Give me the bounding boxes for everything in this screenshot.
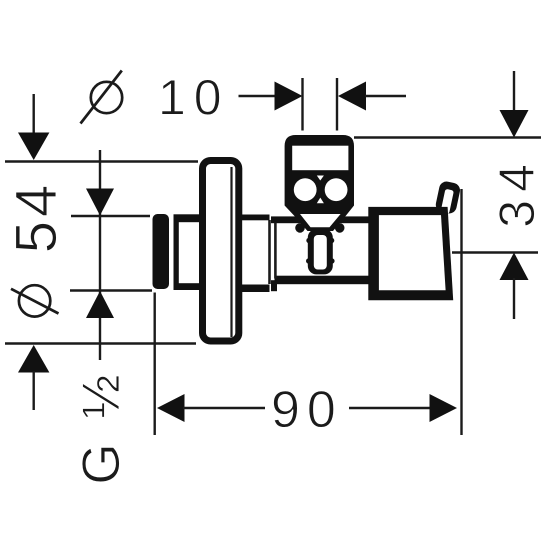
valve spindle upper left bump [306,238,311,243]
valve head top window cutout [292,146,348,171]
valve head right circle cutout [325,178,348,201]
valve spindle lower left bump [306,258,311,263]
dimension Ø10 extension line right [336,78,338,131]
dimension G1/2 dimension line [99,150,101,360]
dimension Ø54 bottom arrowhead [18,345,49,373]
valve head body (black) with shoulders [285,135,354,231]
dimension label "Ø 54" diameter symbol rotated [11,285,59,316]
valve shoulder left lobe [295,223,305,233]
dimension Ø54 bottom dimension line [33,371,35,410]
valve shoulder right lobe [335,223,345,233]
svg-text:G: G [72,443,131,484]
valve body step ring bottom edge [268,280,278,291]
svg-text:90: 90 [271,381,343,439]
dimension 34 top dimension line [513,71,515,112]
svg-text:34: 34 [489,156,545,228]
valve flange inner contour line [230,167,232,337]
dimension 34 top extension line [354,136,541,138]
valve body main tube bottom edge [275,276,373,285]
svg-text:½: ½ [72,374,131,418]
dimension Ø54 top arrowhead [18,133,49,161]
dimension 34 bottom extension line [452,251,538,253]
dimension Ø10 extension line left [301,78,303,131]
dimension 90 right arrowhead [430,394,458,422]
valve body step cylinder top edge [238,215,269,221]
valve spindle inner white [314,235,327,270]
dimension 90 right extension line [460,189,462,435]
outlet body inner white [379,215,446,290]
dimension 90 right dimension line [349,407,431,409]
svg-text:10: 10 [158,70,230,126]
valve head top notch [317,176,324,181]
valve inlet thread stub G1/2 [153,214,170,289]
outlet body outer [368,207,453,300]
valve escutcheon flange [203,161,239,342]
dimension 34 bottom dimension line [513,278,515,319]
dimension G1/2 lower arrowhead [86,291,114,318]
valve body main tube top edge [267,216,372,223]
dimension label "Ø 10" diameter symbol [81,71,123,124]
dimension Ø54 bottom extension line [5,342,196,344]
dimension 90 left extension line [153,293,155,436]
dimension 34 bottom arrowhead [500,253,529,281]
dimension Ø10 right dimension line [365,95,406,97]
valve body step cylinder right contour line [268,220,271,284]
valve inlet collar [174,214,201,290]
valve head shoulder white trapezoid [300,214,341,227]
valve body step cylinder bottom edge [238,285,269,293]
valve head left circle cutout [294,178,317,201]
valve spindle upper right bump [329,238,334,243]
valve body main tube fill [260,219,372,276]
dimension 90 left arrowhead [157,394,185,422]
valve spindle outer [308,229,333,274]
valve body second step contour line [274,223,277,279]
outlet handle tab [434,180,461,215]
valve spindle lower right bump [329,258,334,263]
dimension 90 left dimension line [183,407,265,409]
dimension Ø10 right arrowhead [338,82,366,111]
dimension G1/2 lower extension line [70,289,152,291]
dimension Ø54 top extension line [5,160,198,162]
valve head bottom notch [317,198,324,204]
dimension G1/2 upper arrowhead [86,189,114,216]
dimension Ø10 left arrowhead [275,82,303,111]
dimension Ø10 left dimension line [239,95,278,97]
valve body step cylinder fill [242,215,271,293]
svg-text:54: 54 [4,181,69,254]
dimension Ø54 top dimension line [33,94,35,135]
dimension 34 top arrowhead [500,110,529,138]
dimension G1/2 upper extension line [71,215,150,217]
